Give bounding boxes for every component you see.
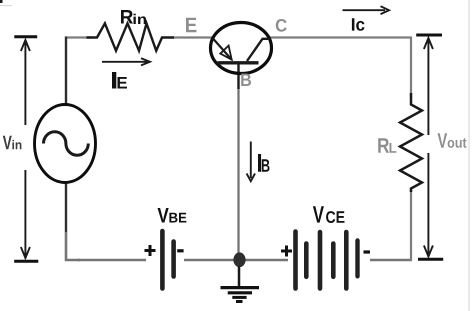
battery VBE label [158, 208, 187, 223]
battery VCE label [313, 206, 345, 223]
battery VCE plate 6 [355, 241, 359, 277]
wire: right vertical below RL [410, 190, 412, 261]
battery VBE short plate [171, 242, 176, 277]
battery VCE plate 1 long [293, 232, 298, 289]
Vin measurement double arrow [21, 40, 30, 258]
wire: left vertical (Vin source down to bottom corner) [65, 182, 80, 261]
wire: base vertical (bar down to node) [237, 63, 239, 254]
current arrow IC [343, 6, 390, 14]
wire: top-left horizontal (corner to Rin lead) [66, 36, 92, 38]
ground [221, 266, 260, 302]
battery VCE plus sign [281, 246, 292, 257]
right border line [468, 0, 470, 311]
label RL [378, 138, 396, 153]
wire: emitter lead to transistor (E segment) [172, 36, 212, 38]
Vin measurement arrow top bar [14, 35, 37, 38]
battery VCE plate 3 long [318, 232, 323, 289]
source V1 sine wave [44, 132, 89, 156]
battery VCE plate 5 long [344, 232, 349, 289]
wire: left vertical (top corner down to Vin source) [65, 37, 67, 106]
battery VBE plus sign [145, 245, 156, 256]
current arrow IB [247, 142, 255, 182]
source V1 Vin circle [35, 105, 96, 183]
node label C [276, 19, 287, 32]
battery VBE minus sign [177, 249, 183, 252]
label Ic [352, 18, 365, 31]
node label E [186, 18, 197, 33]
battery VCE plate 2 short [304, 244, 309, 277]
label IE [112, 72, 127, 89]
wire: right vertical above RL [410, 37, 412, 99]
wire: bottom between base node and VCE [244, 259, 288, 262]
label Vin [3, 136, 22, 150]
node B junction dot [233, 252, 245, 267]
transistor Q1 circle [211, 23, 272, 74]
wire: bottom between VBE and base node [184, 259, 236, 262]
battery VCE minus sign [364, 250, 371, 253]
transistor Q1 emitter line with arrow [213, 39, 232, 60]
label Vout [438, 133, 467, 148]
Vout measurement arrow bottom bar [418, 258, 443, 261]
Vout measurement double arrow [424, 38, 433, 257]
current arrow IE [102, 58, 150, 65]
transistor Q1 collector line [247, 39, 270, 61]
Vin measurement arrow bottom bar [14, 260, 38, 263]
resistor R1 Rin [87, 23, 175, 50]
wire: bottom-left horizontal (to VBE battery) [78, 259, 146, 262]
wire: collector to right corner (C segment) [270, 36, 412, 38]
battery VCE plate 4 short [331, 244, 336, 277]
wire: bottom between VCE and right corner [370, 259, 412, 262]
resistor R2 RL [400, 93, 422, 192]
Vout measurement arrow top bar [416, 34, 442, 37]
label Rin [121, 10, 146, 24]
label IB [258, 154, 270, 172]
corner crop mark [0, 0, 12, 6]
node label B [241, 74, 251, 86]
battery VBE long plate [160, 231, 165, 289]
transistor Q1 base bar [218, 61, 259, 64]
